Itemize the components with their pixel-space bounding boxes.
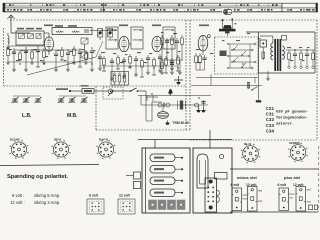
IF section bus wire (100, 65, 178, 67)
svg-text:6 volt :: 6 volt : (12, 193, 24, 198)
ground below L1 (6, 45, 10, 49)
chassis outline (dashed) left edge (3, 28, 5, 86)
svg-text:C32: C32 (266, 117, 274, 123)
dial cord diagonal (27, 41, 103, 75)
feed-through capacitor note (276, 111, 308, 127)
supply wire with terminal (69, 90, 82, 92)
page edge marks (309, 146, 319, 212)
svg-text:620 pF gennem-: 620 pF gennem- (276, 111, 308, 115)
heading plus stel (284, 175, 300, 180)
ground near transformer (266, 71, 270, 80)
minus 12 volt label (246, 183, 257, 187)
transformer core element (178, 101, 186, 110)
svg-text:rød: rød (307, 188, 311, 192)
tube V3 DAF41 (detector) (152, 36, 162, 52)
label Skalalampe (56, 85, 89, 90)
minus 6V wire colours (243, 193, 249, 201)
vibrator G1 (158, 105, 169, 118)
label socket V4 (244, 142, 252, 146)
socket V4 underside view (241, 144, 261, 163)
interference filter (dashed box) (103, 87, 123, 99)
svg-text:sikring 5 Amp.: sikring 5 Amp. (34, 193, 60, 198)
svg-text:satorer.: satorer. (276, 122, 294, 127)
svg-text:rød: rød (258, 189, 262, 193)
ground below vibrator (165, 121, 170, 125)
svg-text:6 volt: 6 volt (231, 183, 241, 187)
power unit layout box B (with tube) (193, 148, 232, 213)
socket G1 vibrator view (288, 143, 308, 162)
wire lamp to switch (113, 90, 130, 92)
svg-text:DAF41: DAF41 (99, 138, 109, 142)
separator rule left (0, 165, 99, 166)
output unit box (246, 32, 315, 73)
plus 6V cable plug (279, 188, 289, 211)
svg-text:minus stel: minus stel (237, 175, 257, 180)
IF/AF section component chains (98, 54, 180, 80)
detector stage components (160, 35, 183, 74)
coupling capacitor C-out (260, 40, 267, 60)
terminal blocks beside box A (126, 172, 141, 189)
label above band filter (17, 28, 42, 30)
main ground point (174, 76, 183, 84)
svg-text:6 volt: 6 volt (278, 183, 288, 187)
labels above oscillator unit (55, 25, 77, 27)
tuning capacitor C-var (81, 38, 88, 58)
wire speaker to output unit (222, 32, 246, 34)
antenna (7, 15, 15, 33)
minus 6 volt label (231, 183, 241, 187)
label M.B. (67, 113, 78, 119)
socket V3 underside view (96, 140, 115, 159)
wire V2 to T2 (129, 43, 131, 45)
dial scale strip (3, 3, 318, 12)
loudspeaker (219, 18, 236, 36)
RF section bus wire b (14, 49, 80, 51)
screen partition (dashed) line a (185, 20, 187, 130)
svg-text:C33: C33 (266, 123, 274, 129)
fuse F1 (82, 89, 94, 94)
minus 12V wire colours (258, 189, 263, 204)
svg-text:6 volt: 6 volt (89, 194, 99, 198)
6 volt connector face (87, 194, 104, 215)
svg-text:12 volt: 12 volt (119, 194, 131, 198)
plus 6V wire colours (290, 192, 296, 200)
fuse rating text (10, 193, 60, 205)
IF transformer T3 (163, 27, 175, 49)
RF section component chains (R/C to ground) (6, 46, 94, 71)
layout stub a (154, 140, 156, 149)
switch S2 (130, 88, 139, 92)
output stage components (191, 53, 262, 91)
screen partition (dashed) line b (189, 20, 191, 130)
power unit (dashed) left edge (95, 86, 97, 130)
wire V3 to T3 (162, 43, 163, 45)
wire fuse to lamp (94, 90, 108, 92)
buffer capacitors on supply line (141, 103, 208, 108)
tube V2 DF41 (IF amplifier) (119, 36, 129, 52)
svg-text:Spænding og polaritet.: Spænding og polaritet. (7, 174, 68, 180)
power unit (dashed) bottom edge (96, 129, 190, 131)
power unit layout box A (142, 148, 190, 213)
svg-text:12 volt :: 12 volt : (10, 200, 25, 205)
svg-text:sort: sort (307, 200, 312, 204)
socket V1 underside view (9, 140, 28, 159)
band filter unit S1 (trimmers) (16, 31, 44, 45)
power wiring bends (146, 97, 162, 121)
L.B. alignment coils (12, 96, 42, 103)
tuning gang trimmer cluster (90, 29, 116, 41)
svg-text:DL41: DL41 (244, 142, 252, 146)
plus 6 volt label (278, 183, 288, 187)
wire junction dots (13, 49, 307, 98)
label socket V2 (54, 138, 62, 142)
IF transformer T2 (131, 27, 143, 49)
power bus wire (138, 95, 211, 97)
chassis outline (dashed) lower-left edge (4, 85, 187, 87)
dial scale tick marks and station names (4, 4, 314, 12)
label socket G1 (289, 141, 300, 145)
baseline rule bottom right (230, 211, 318, 213)
coil L1 antenna coil (8, 33, 11, 44)
label V4 (199, 25, 209, 27)
label V3 (152, 25, 161, 27)
svg-text:C31: C31 (266, 112, 274, 118)
plus 12V wire colours (307, 188, 312, 204)
chassis outline (dashed) right edge (316, 20, 318, 140)
socket V2 underside view (51, 140, 70, 159)
wire antenna to input (11, 32, 30, 34)
output filter components (286, 50, 315, 69)
minus 6V cable plug (232, 188, 242, 211)
plus 12 volt label (293, 183, 304, 187)
wire switch onward (138, 91, 146, 121)
label V2 (119, 25, 128, 27)
svg-text:C34: C34 (266, 128, 274, 134)
svg-text:C21: C21 (266, 106, 274, 112)
wire supply to partition (141, 96, 153, 106)
svg-text:TRM 90.60: TRM 90.60 (173, 121, 189, 125)
svg-text:sort: sort (258, 199, 263, 203)
svg-text:rød: rød (243, 193, 247, 197)
svg-text:føringskonden-: føringskonden- (276, 116, 308, 121)
label socket V3 (99, 138, 109, 142)
layout stub b (209, 130, 211, 148)
label L.B. (22, 113, 32, 119)
layout top wire (138, 139, 232, 141)
tone switch network (dashed box) (215, 37, 259, 74)
IF transformer T1 (106, 27, 118, 49)
M.B. alignment coils (58, 96, 88, 103)
pilot lamp (108, 89, 113, 94)
svg-text:sikring 3 Amp.: sikring 3 Amp. (34, 200, 60, 205)
chassis outline (dashed) top edge (10, 19, 317, 21)
feed-through capacitor designators C21 C31 C32 C33 C34 (266, 106, 274, 134)
svg-text:brun: brun (290, 192, 296, 196)
svg-text:plus stel: plus stel (284, 175, 300, 180)
heading minus stel (237, 175, 257, 180)
oscillator coil unit (52, 28, 92, 35)
heading Spænding og polaritet (7, 174, 68, 180)
svg-text:L.B.: L.B. (22, 113, 32, 119)
ground output section (256, 73, 261, 102)
tube V4 DL41 (output) (198, 35, 210, 55)
supply filter capacitors (196, 100, 206, 112)
ground on power bus (168, 89, 173, 95)
separator rule right (230, 168, 318, 170)
voltage divider unit (R-board) (111, 72, 129, 86)
svg-text:M.B.: M.B. (67, 113, 78, 119)
plus 12V cable plug (296, 187, 306, 212)
label TRM 90.60 (173, 121, 189, 125)
wire tube V1 to comb (44, 33, 49, 55)
dial lamp (222, 8, 233, 16)
component value labels (9, 32, 309, 63)
label socket V1 (10, 138, 20, 142)
power unit (dashed) bottom edge right part (190, 139, 317, 141)
output transformer T4 (260, 36, 287, 72)
minus 12V cable plug (248, 187, 258, 212)
RF section bus wire c (8, 61, 92, 63)
12 volt connector face (118, 194, 135, 215)
label V1 (44, 25, 53, 27)
tube V1 DK40 (mixer) (44, 37, 53, 51)
RF section bus wire a (8, 45, 44, 47)
